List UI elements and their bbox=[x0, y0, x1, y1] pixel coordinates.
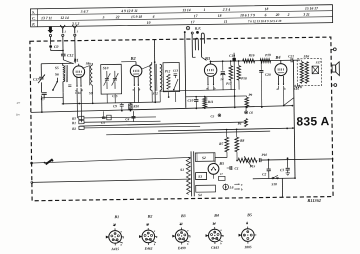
tube socket B4 (C443) bbox=[205, 213, 224, 250]
transformer core bbox=[191, 151, 194, 196]
svg-text:S9: S9 bbox=[89, 91, 93, 95]
svg-text:6: 6 bbox=[265, 13, 267, 17]
svg-text:S6: S6 bbox=[55, 72, 59, 76]
switch-contact table (S/C/P rows) bbox=[30, 5, 332, 27]
svg-text:C2: C2 bbox=[262, 172, 266, 176]
svg-text:22: 22 bbox=[115, 15, 120, 19]
wire input bottom tie bbox=[44, 96, 63, 98]
main ground bus bbox=[31, 106, 293, 113]
svg-text:15 16 17: 15 16 17 bbox=[305, 6, 318, 10]
svg-text:835 A: 835 A bbox=[296, 114, 329, 128]
svg-text:C9: C9 bbox=[113, 104, 117, 108]
capacitor C4 bbox=[125, 111, 135, 122]
svg-text:20: 20 bbox=[275, 13, 280, 17]
svg-text:2: 2 bbox=[287, 13, 290, 17]
AVC box with resistor P12 and capacitor C13 bbox=[163, 63, 180, 92]
svg-text:B3: B3 bbox=[180, 213, 186, 218]
svg-text:C20: C20 bbox=[265, 73, 271, 77]
svg-text:C16: C16 bbox=[75, 91, 81, 95]
capacitor C3 bbox=[280, 157, 290, 175]
svg-text:S18: S18 bbox=[271, 182, 277, 186]
svg-text:C10: C10 bbox=[188, 99, 194, 103]
heater line 2 bbox=[84, 121, 160, 122]
wire heater feed bbox=[215, 156, 227, 158]
tube B1 bbox=[73, 58, 85, 78]
tube B1 pin wires bbox=[75, 77, 84, 122]
svg-text:R7: R7 bbox=[219, 142, 223, 146]
tube B2 bbox=[121, 56, 142, 77]
svg-text:7 6 12 13 10 8 9 14 5 4 19: 7 6 12 13 10 8 9 14 5 4 19 bbox=[248, 19, 282, 23]
svg-text:R2: R2 bbox=[72, 127, 76, 131]
svg-text:C1: C1 bbox=[234, 167, 238, 171]
svg-text:B4: B4 bbox=[213, 213, 219, 218]
capacitor C14 bbox=[220, 61, 226, 90]
resistor P17 bbox=[226, 61, 233, 90]
svg-text:C12: C12 bbox=[67, 53, 73, 57]
svg-text:R8: R8 bbox=[240, 139, 244, 143]
capacitor C2 bbox=[262, 159, 271, 179]
svg-text:E462: E462 bbox=[144, 247, 153, 251]
svg-text:B4: B4 bbox=[274, 55, 281, 60]
svg-text:C.: C. bbox=[32, 17, 36, 21]
anode rail bbox=[283, 60, 295, 178]
svg-text:C4: C4 bbox=[125, 117, 129, 121]
IF transformer S10 with trimmers bbox=[101, 64, 122, 103]
capacitor C6 mark bbox=[245, 107, 254, 115]
svg-text:10: 10 bbox=[147, 21, 151, 25]
svg-text:B2: B2 bbox=[147, 214, 153, 219]
label C16 bbox=[75, 91, 81, 95]
coil S5 bbox=[55, 66, 65, 74]
svg-text:C17: C17 bbox=[33, 78, 39, 82]
svg-text:S1: S1 bbox=[180, 168, 184, 172]
svg-text:13 14: 13 14 bbox=[182, 8, 191, 12]
wire bottom drop bbox=[253, 178, 295, 198]
wire antenna down-leads bbox=[51, 36, 76, 63]
svg-text:C3: C3 bbox=[280, 168, 284, 172]
svg-text:C6: C6 bbox=[249, 111, 253, 115]
capacitor C9 bbox=[113, 103, 124, 111]
svg-text:11: 11 bbox=[224, 20, 228, 24]
rectifier tube B5 bbox=[208, 157, 224, 178]
capacitor C20 bbox=[259, 61, 271, 108]
svg-text:14: 14 bbox=[220, 77, 224, 81]
ground bus bbox=[62, 102, 160, 104]
bus mid bbox=[106, 131, 270, 135]
svg-text:R16: R16 bbox=[249, 53, 255, 57]
heater line 3 bbox=[84, 126, 200, 128]
mains line 1 bbox=[32, 157, 191, 163]
R.F. pickup terminals bbox=[186, 26, 201, 34]
svg-text:R10: R10 bbox=[133, 104, 139, 108]
drawing number R11362 bbox=[307, 198, 322, 203]
svg-text:S4: S4 bbox=[198, 193, 202, 197]
svg-text:P6: P6 bbox=[238, 122, 242, 126]
svg-text:S.: S. bbox=[32, 11, 35, 15]
svg-text:S5: S5 bbox=[55, 66, 59, 70]
grid bus B3 bbox=[210, 60, 291, 61]
svg-text:C443: C443 bbox=[211, 246, 219, 250]
wire h90 bbox=[160, 90, 236, 92]
svg-text:C15: C15 bbox=[112, 94, 118, 98]
label C13 bbox=[173, 69, 179, 73]
waveband switch arm bbox=[52, 78, 58, 91]
tube B3 bbox=[204, 56, 217, 77]
svg-text:P12: P12 bbox=[165, 69, 171, 73]
svg-text:5 6 7: 5 6 7 bbox=[81, 10, 89, 14]
svg-text:1: 1 bbox=[204, 8, 206, 12]
capacitor C7 bbox=[41, 93, 47, 101]
svg-text:B3: B3 bbox=[204, 56, 211, 61]
svg-text:17: 17 bbox=[194, 14, 198, 18]
resistor R8 bbox=[235, 129, 245, 160]
model number 835 A bbox=[296, 114, 329, 128]
svg-text:B5: B5 bbox=[218, 161, 224, 166]
box pin wires bbox=[169, 92, 176, 102]
output transformer S16 with speaker S17 bbox=[297, 54, 321, 86]
svg-text:B1: B1 bbox=[113, 214, 119, 219]
tube B4 bbox=[274, 55, 286, 76]
resistor R5 bbox=[72, 116, 84, 120]
svg-text:E499: E499 bbox=[177, 246, 186, 250]
arrow b bbox=[234, 187, 243, 191]
svg-text:B1: B1 bbox=[73, 58, 79, 63]
capacitor C5b mark bbox=[210, 114, 220, 119]
bus mid2 bbox=[158, 128, 293, 131]
svg-text:C13: C13 bbox=[173, 69, 179, 73]
capacitor C0 bbox=[49, 45, 58, 49]
svg-text:b≈: b≈ bbox=[16, 113, 20, 117]
secondary S4 bbox=[196, 185, 216, 197]
resistor R1 bbox=[72, 121, 84, 126]
tube socket B3 (E499) bbox=[172, 213, 191, 250]
coil core bbox=[66, 65, 68, 82]
tube socket B5 (1805) bbox=[238, 212, 256, 249]
coil S12 bbox=[152, 64, 162, 102]
svg-text:P19: P19 bbox=[265, 53, 271, 57]
antenna A1 symbol bbox=[72, 25, 78, 36]
HT bus bbox=[80, 122, 247, 126]
chassis boundary (dashed) bbox=[30, 37, 333, 201]
pilot lamp L6 bbox=[223, 183, 234, 190]
svg-text:S16: S16 bbox=[304, 54, 310, 58]
svg-text:5: 5 bbox=[103, 15, 105, 19]
tube socket B2 (E462) bbox=[139, 214, 158, 251]
svg-text:2 3 4: 2 3 4 bbox=[222, 8, 231, 12]
svg-text:R11: R11 bbox=[208, 100, 214, 104]
tube B4 pins bbox=[276, 76, 286, 106]
svg-text:17: 17 bbox=[191, 20, 195, 24]
tube B3 pins bbox=[206, 76, 216, 90]
mains line 2 bbox=[32, 179, 191, 182]
margin marks bbox=[16, 101, 20, 117]
capacitor C12 bbox=[61, 53, 74, 63]
svg-text:P10: P10 bbox=[261, 153, 267, 157]
coil core 2 bbox=[155, 64, 157, 91]
earth arrow terminal bbox=[47, 26, 53, 36]
tube socket B1 (A415) bbox=[106, 214, 125, 251]
svg-text:18: 18 bbox=[218, 14, 222, 18]
svg-text:P9: P9 bbox=[248, 93, 252, 97]
svg-text:1805: 1805 bbox=[244, 245, 251, 249]
svg-text:C5: C5 bbox=[210, 114, 214, 118]
svg-text:B2: B2 bbox=[130, 56, 137, 61]
speaker terminals bbox=[331, 48, 337, 87]
antenna A2 symbol bbox=[60, 25, 66, 36]
svg-text:S17: S17 bbox=[316, 60, 321, 64]
svg-text:A415: A415 bbox=[110, 247, 119, 251]
resistor R2 bbox=[72, 126, 84, 131]
wire B2 plate to S11 bbox=[142, 65, 152, 69]
svg-text:R1: R1 bbox=[72, 121, 76, 125]
potentiometer P15 / resistor P10 bbox=[238, 152, 333, 169]
tube B2 pin wires bbox=[132, 77, 141, 103]
heater line 1 bbox=[84, 117, 156, 118]
svg-text:L6: L6 bbox=[229, 185, 234, 189]
svg-text:S3: S3 bbox=[198, 175, 202, 179]
svg-text:13 7 11: 13 7 11 bbox=[41, 16, 52, 20]
primary winding S1 bbox=[180, 157, 191, 194]
border terminal marks bbox=[31, 162, 33, 183]
switch S18 bbox=[271, 175, 278, 186]
label S15 bbox=[294, 85, 302, 91]
label C15 bbox=[112, 94, 118, 98]
svg-text:C21: C21 bbox=[288, 54, 294, 58]
svg-text:4 9 12 8 11: 4 9 12 8 11 bbox=[120, 9, 138, 13]
svg-text:S12: S12 bbox=[153, 92, 159, 96]
mains switch bbox=[44, 158, 54, 165]
wire input frame bbox=[41, 63, 74, 112]
svg-text:R.F.: R.F. bbox=[195, 26, 201, 30]
arrow a bbox=[234, 183, 243, 187]
resistor P9 bbox=[245, 93, 253, 107]
R.F. loop hairpins bbox=[192, 33, 206, 61]
svg-text:12 14: 12 14 bbox=[60, 16, 69, 20]
secondary S2 bbox=[195, 153, 215, 162]
resistor P19 bbox=[260, 53, 271, 62]
capacitor C10 bbox=[187, 97, 198, 109]
svg-text:R11362: R11362 bbox=[307, 198, 322, 203]
wire mains-aerial rail bbox=[184, 31, 187, 108]
svg-text:S10: S10 bbox=[103, 66, 109, 70]
svg-text:P18: P18 bbox=[241, 76, 247, 80]
resistor R11 bbox=[203, 96, 214, 108]
svg-text:S2: S2 bbox=[202, 156, 206, 160]
coil S6 bbox=[55, 72, 65, 104]
svg-text:P.: P. bbox=[32, 23, 35, 27]
capacitor C5 bbox=[101, 111, 111, 125]
svg-text:C0: C0 bbox=[54, 45, 59, 49]
resistor R7 bbox=[219, 130, 229, 158]
loudspeaker icon bbox=[332, 62, 339, 76]
svg-text:P15: P15 bbox=[250, 164, 256, 168]
secondary S3 bbox=[196, 172, 207, 179]
coil S11 bbox=[150, 62, 153, 102]
wire h97 bbox=[186, 95, 247, 98]
capacitor C19 bbox=[229, 53, 236, 108]
svg-text:4: 4 bbox=[152, 15, 155, 19]
svg-text:B5: B5 bbox=[246, 212, 252, 217]
resistor R16 bbox=[243, 53, 255, 62]
resistor P18 bbox=[237, 61, 247, 90]
svg-text:18 6 1 7 9: 18 6 1 7 9 bbox=[240, 13, 255, 17]
capacitor C8 bbox=[68, 85, 71, 87]
capacitor C1 bbox=[227, 166, 239, 171]
resistor P6 bbox=[237, 119, 247, 127]
wire screen rail bbox=[153, 40, 156, 102]
coil S8a bbox=[82, 61, 93, 103]
svg-text:3 21: 3 21 bbox=[302, 13, 310, 17]
resistor R10 bbox=[129, 102, 140, 110]
capacitor C21 bbox=[288, 54, 300, 62]
svg-text:18: 18 bbox=[265, 7, 269, 11]
svg-text:S8a: S8a bbox=[86, 61, 92, 65]
label S9 bbox=[89, 91, 93, 95]
svg-text:C5: C5 bbox=[101, 121, 105, 125]
svg-text:a≈: a≈ bbox=[17, 101, 21, 105]
trimmer C17 bbox=[33, 74, 45, 83]
svg-text:15 9 18: 15 9 18 bbox=[131, 15, 142, 19]
fuse bbox=[219, 173, 226, 181]
